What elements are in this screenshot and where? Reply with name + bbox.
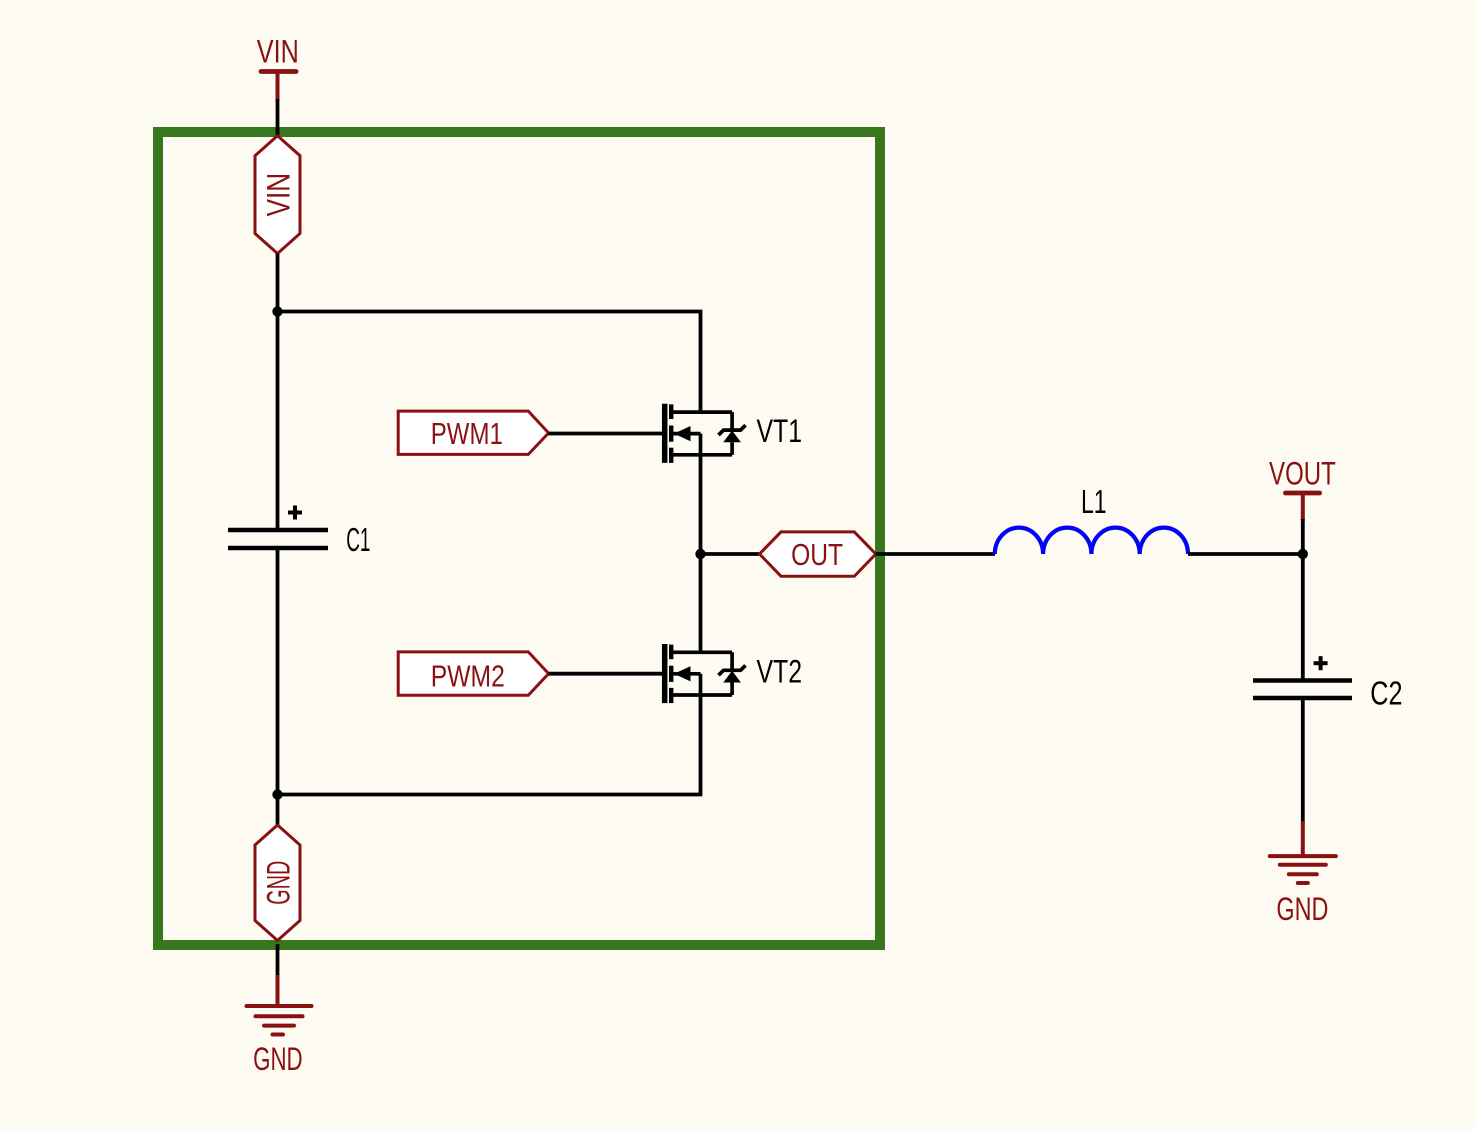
ground symbol GND (right) <box>1270 821 1336 927</box>
wire VIN flag to sheet pin <box>276 99 280 137</box>
wire node A down to C1 <box>276 312 280 531</box>
svg-text:OUT: OUT <box>791 537 843 572</box>
junction node OUT <box>695 549 705 559</box>
junction node VOUT <box>1298 549 1308 559</box>
wire node VOUT to C2 <box>1301 554 1305 681</box>
capacitor C1 (polarized) <box>228 506 370 559</box>
wire C2 to ground <box>1301 698 1305 823</box>
wire VOUT flag to node VOUT <box>1301 519 1305 554</box>
svg-text:GND: GND <box>260 861 296 905</box>
svg-text:VT2: VT2 <box>757 653 803 689</box>
wire node OUT to VT2 drain <box>699 554 703 652</box>
wire C1 to node B <box>276 548 280 795</box>
sheet boundary (green module box) <box>158 132 880 945</box>
wire PWM2 to VT2 gate <box>549 672 662 676</box>
junction node B <box>272 789 282 799</box>
svg-text:L1: L1 <box>1081 483 1107 520</box>
transistor VT1 (N-MOSFET with body diode) <box>665 404 802 463</box>
wire node B to GND label <box>276 795 280 827</box>
svg-text:VT1: VT1 <box>757 413 803 449</box>
inductor L1 <box>995 483 1188 554</box>
wire VT1 source to node OUT <box>699 455 703 554</box>
svg-text:PWM2: PWM2 <box>431 658 505 693</box>
wire OUT label to L1 <box>876 552 995 556</box>
hierarchical label PWM2 <box>398 652 548 695</box>
ground symbol GND (left) <box>247 975 312 1077</box>
svg-text:C2: C2 <box>1370 675 1402 712</box>
wire GND label to ground symbol <box>276 944 280 977</box>
svg-text:GND: GND <box>1276 891 1328 927</box>
transistor VT2 (N-MOSFET with body diode) <box>665 644 802 703</box>
hierarchical label PWM1 <box>398 411 548 454</box>
wire L1 to node VOUT <box>1188 552 1303 556</box>
hierarchical label OUT <box>760 532 876 576</box>
svg-text:GND: GND <box>253 1041 303 1077</box>
wire node B to VT2 source (bottom rail) <box>278 695 701 795</box>
svg-text:PWM1: PWM1 <box>431 416 503 451</box>
wire VIN label to node A <box>276 254 280 312</box>
wire node OUT to OUT label <box>701 552 760 556</box>
capacitor C2 (polarized) <box>1253 656 1403 711</box>
power flag VOUT <box>1269 455 1336 521</box>
wire node A to VT1 drain (top rail) <box>278 312 701 413</box>
svg-text:VIN: VIN <box>260 173 296 217</box>
svg-text:C1: C1 <box>346 521 370 558</box>
svg-text:VOUT: VOUT <box>1269 455 1336 491</box>
hierarchical label VIN <box>255 136 300 254</box>
junction node A <box>272 306 282 316</box>
wire PWM1 to VT1 gate <box>549 432 662 436</box>
hierarchical label GND <box>255 825 300 941</box>
svg-text:VIN: VIN <box>257 34 299 70</box>
power flag VIN <box>257 34 299 102</box>
